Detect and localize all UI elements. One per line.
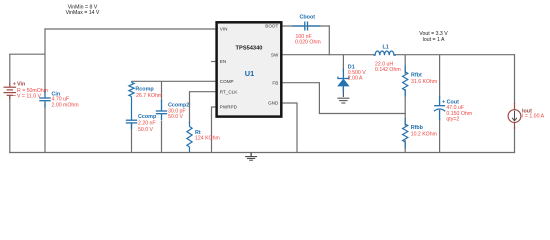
svg-text:VinMax = 14 V: VinMax = 14 V <box>66 10 100 16</box>
svg-text:VIN: VIN <box>220 26 228 31</box>
capacitor Ccomp2 <box>156 100 167 121</box>
svg-text:10.2 KOhm: 10.2 KOhm <box>411 131 437 137</box>
resistor Rcomp <box>129 81 134 120</box>
svg-text:SW: SW <box>271 52 279 57</box>
svg-text:TPS54340: TPS54340 <box>236 45 263 51</box>
inductor L1 <box>373 51 396 55</box>
wire: EN pin stub <box>211 61 215 63</box>
svg-text:GND: GND <box>268 101 279 106</box>
wire: Rfbt bottom lead to FB node <box>404 89 406 114</box>
wire: Iout bottom lead to rail <box>514 127 516 153</box>
wire: VIN net horizontal to IC pin VIN <box>44 28 215 30</box>
value label Cboot <box>295 34 321 46</box>
svg-text:31.6 KOhm: 31.6 KOhm <box>411 79 437 85</box>
capacitor Cout (polarized) <box>434 96 445 120</box>
wire: Cout top lead from Vout net <box>439 55 441 98</box>
svg-text:50.0 V: 50.0 V <box>168 114 184 120</box>
svg-text:V = 11.0 V: V = 11.0 V <box>17 94 42 100</box>
svg-text:Rfbb: Rfbb <box>411 125 424 131</box>
svg-text:Vin: Vin <box>17 82 25 88</box>
voltage source Vin <box>4 84 17 100</box>
svg-text:−: − <box>13 93 16 99</box>
svg-text:FB: FB <box>272 80 278 85</box>
wire: Vin source top lead <box>9 54 11 85</box>
wire: Vin top horizontal to Cin junction <box>9 53 45 55</box>
resistor Rfbb <box>403 118 408 149</box>
wire: Ccomp2 top lead <box>161 81 163 102</box>
svg-text:124 KOhm: 124 KOhm <box>195 136 220 142</box>
wire: RT_CLK net horizontal <box>190 91 216 93</box>
svg-text:PWRPD: PWRPD <box>220 105 238 110</box>
wire: bottom ground rail <box>9 152 515 154</box>
svg-text:0.020 Ohm: 0.020 Ohm <box>295 40 321 46</box>
wire: Cin bottom lead <box>44 104 46 153</box>
value label Cout <box>446 105 472 122</box>
capacitor Ccomp <box>126 120 137 129</box>
ground (main rail, below U1) <box>245 153 257 161</box>
wire: D1 bottom lead to ground <box>342 87 344 97</box>
svg-text:COMP: COMP <box>220 79 234 84</box>
op-amp/regulator IC U1 TPS54340 <box>217 22 282 116</box>
svg-text:0.142 Ohm: 0.142 Ohm <box>375 67 401 73</box>
wire: Vout net horizontal from L1 to Iout <box>394 54 516 56</box>
svg-text:Iout = 1 A: Iout = 1 A <box>422 37 445 43</box>
value label Ccomp2 <box>168 108 186 120</box>
wire: Rfbb bottom lead to rail <box>404 140 406 153</box>
svg-text:Rfbt: Rfbt <box>411 72 422 78</box>
wire: Rfbb top lead from FB node <box>404 114 406 127</box>
svg-text:50.0 V: 50.0 V <box>138 127 154 133</box>
value label Cin <box>52 97 79 109</box>
svg-text:26.7 KOhm: 26.7 KOhm <box>136 93 162 99</box>
svg-text:qty=2: qty=2 <box>446 116 459 122</box>
header note VinMin/VinMax <box>66 5 100 17</box>
wire: COMP net horizontal <box>132 80 216 82</box>
svg-text:2.20 nF: 2.20 nF <box>138 121 156 127</box>
label Vin name with polarity <box>13 82 26 100</box>
wire: FB net (pin FB to feedback divider) <box>283 83 406 114</box>
svg-text:+: + <box>13 82 16 88</box>
wire: BOOT net horizontal through Cboot <box>283 25 330 27</box>
wire: Ccomp bottom lead to rail <box>131 123 133 153</box>
wire: Rfbt top lead from Vout net <box>404 55 406 74</box>
wire: Ccomp2 bottom lead to rail <box>161 121 163 153</box>
svg-text:EN: EN <box>220 59 226 64</box>
value label Ccomp <box>138 121 156 134</box>
svg-text:Cboot: Cboot <box>300 14 316 20</box>
wire: BOOT net drop to SW <box>328 25 330 55</box>
current source Iout <box>508 103 521 129</box>
wire: GND pin to rail <box>283 103 297 153</box>
wire: D1 top lead from SW net <box>342 55 344 72</box>
ground (D1 anode) <box>337 98 349 103</box>
svg-text:Rcomp: Rcomp <box>135 87 154 93</box>
wire: Cout bottom lead to rail <box>439 118 441 153</box>
svg-text:Ccomp: Ccomp <box>138 114 157 120</box>
capacitor Cin <box>39 92 50 108</box>
value label D1 <box>348 70 366 82</box>
diode D1 (schottky) <box>338 69 349 94</box>
svg-text:L1: L1 <box>383 45 389 51</box>
resistor Rfbt <box>403 66 408 97</box>
resistor Rt <box>187 122 192 153</box>
svg-text:I = 1.00 A: I = 1.00 A <box>522 114 545 120</box>
wire: Iout top lead from Vout net <box>514 54 516 104</box>
header note Vout/Iout <box>419 31 448 43</box>
svg-text:U1: U1 <box>245 69 254 78</box>
wire: Vin source bottom lead <box>9 96 11 153</box>
wire: PWRPD net to rail <box>212 107 216 153</box>
svg-text:RT_CLK: RT_CLK <box>220 89 238 94</box>
capacitor Cboot <box>292 22 320 31</box>
value label Vin <box>17 88 48 100</box>
wire: Rt top lead vertical <box>189 91 191 123</box>
wire: SW net horizontal to L1 <box>283 54 376 56</box>
svg-text:2.00 mOhm: 2.00 mOhm <box>52 103 79 109</box>
wire: Cin vertical (junction up to VIN net corner, down to Cin) <box>44 28 46 93</box>
value label L1 <box>375 62 401 74</box>
svg-text:BOOT: BOOT <box>265 23 278 28</box>
svg-text:2.00 A: 2.00 A <box>348 75 363 81</box>
